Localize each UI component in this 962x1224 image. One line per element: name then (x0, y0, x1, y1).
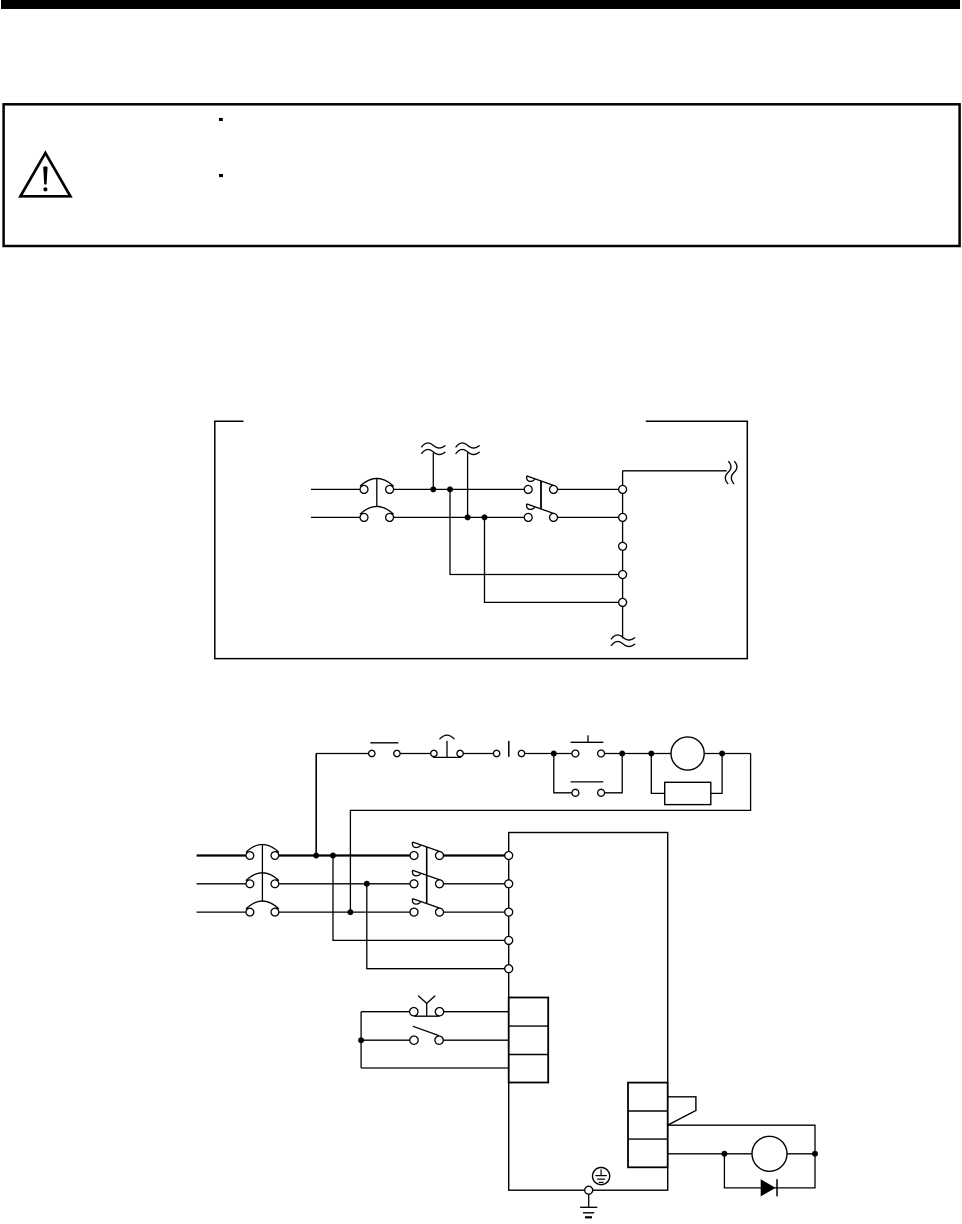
node dot on L1 (branch down) (447, 486, 453, 492)
contactor MC pole R (410, 842, 444, 860)
output wire upper (to motor right) (668, 1125, 815, 1154)
wire motor to right node (787, 1153, 815, 1155)
bullet 1 (219, 118, 223, 121)
power line T segments (197, 911, 505, 913)
node dot (aux branch right) (619, 751, 625, 757)
aux contact bar (571, 781, 604, 783)
cable squiggle 1 (vertical with break) (421, 443, 445, 489)
control wire segment 2 (400, 753, 431, 755)
wire contactor to terminal 1 (558, 488, 619, 490)
node dot motor left (721, 1151, 727, 1157)
motor M (752, 1136, 787, 1171)
node dot on loop (358, 1037, 364, 1043)
MCCB pole S (246, 873, 279, 888)
node dot L1 to STF (330, 853, 336, 859)
enclosure frame (diagram 1) (215, 421, 748, 658)
wire L1 to contactor (394, 488, 525, 490)
bullet 2 (219, 174, 223, 177)
wire branch to terminal 4 (450, 489, 619, 574)
contactor MC pole T (410, 899, 444, 917)
contactor MC link (426, 847, 428, 904)
circuit breaker (2-pole) pole 2 (360, 506, 394, 521)
inverter terminal S (505, 880, 513, 888)
control wire segment 1 (316, 753, 368, 755)
control terminal block (509, 998, 549, 1083)
cable squiggle right (vertical waves) (725, 461, 737, 484)
inverter terminal 5 (505, 965, 513, 973)
output wire lower (to motor) (668, 1153, 752, 1155)
header bar (1, 0, 960, 9)
wire to inverter terminal 4 (333, 856, 505, 941)
inverter terminal 4 (505, 936, 513, 944)
node dot on L2 (branch down) (482, 514, 488, 520)
terminal bus vertical (622, 471, 624, 639)
stop contact (NC) circles (369, 750, 401, 756)
ground symbol (580, 1194, 597, 1217)
control wire segment 3 (463, 753, 493, 755)
wire contactor to terminal 2 (558, 516, 619, 518)
surge absorber box (665, 782, 711, 804)
control wire segment 5 (604, 753, 671, 755)
node dot on L2 (branch up) (465, 514, 471, 520)
surge absorber wires (651, 754, 722, 794)
terminal 3 (619, 542, 627, 550)
node dot motor right (812, 1151, 818, 1157)
start pushbutton NO circles (493, 750, 524, 756)
MCCB pole R (246, 845, 279, 860)
aux self-hold branch wires (554, 754, 622, 793)
cable squiggle 2 (vertical with break) (456, 443, 480, 517)
control wire segment 6 (704, 753, 750, 755)
wire L2 input (311, 516, 360, 518)
node dot on L1 (branch up) (430, 486, 436, 492)
wire top to cable break (623, 470, 727, 472)
inverter terminal R (505, 852, 513, 860)
cable flag marker (668, 1097, 696, 1125)
caution box frame (4, 104, 960, 246)
freewheel diode branch wires (724, 1154, 815, 1188)
control wire segment 4 (525, 753, 573, 755)
circuit breaker (2-pole) pole 1 (360, 478, 394, 493)
switch loop bottom wire (361, 1067, 509, 1069)
stop contact bar (370, 742, 398, 744)
contactor mechanical link (diagram 1) (540, 481, 542, 509)
selector switch wires (361, 1039, 509, 1041)
node dot on T (return) (347, 909, 353, 915)
contactor coil MC (671, 737, 704, 770)
cable squiggle bottom (611, 635, 635, 647)
PE symbol (circled earth) (593, 1168, 610, 1185)
wire L1 input (311, 488, 360, 490)
wire branch to terminal 5 (485, 517, 619, 602)
warning triangle (20, 153, 70, 196)
aux contact circles (572, 789, 605, 796)
power line S segments (197, 883, 505, 885)
node dot on S (364, 881, 370, 887)
wire L2 to contactor (394, 516, 525, 518)
node dot (surge branch left) (648, 751, 654, 757)
pushbutton NC bar below + stem + dome (433, 735, 461, 757)
control return wire (350, 754, 750, 913)
terminal 5 (619, 598, 627, 606)
OL relay bar with tick (571, 735, 604, 742)
contactor MC pole S (410, 870, 444, 888)
node dot (aux branch left) (551, 751, 557, 757)
inverter terminal T (505, 908, 513, 916)
ground terminal circle (585, 1186, 593, 1194)
power line R (bold) segments (197, 854, 505, 856)
output terminal block (628, 1083, 668, 1168)
contactor pole 2 (diagram 1) (524, 504, 557, 522)
start pushbutton plunger (508, 741, 510, 757)
wire to inverter terminal 5 (367, 884, 505, 969)
MCCB pole T (246, 901, 279, 916)
terminal 1 (619, 485, 627, 493)
control feed wire (from L1 up) (315, 754, 317, 856)
terminal 2 (619, 513, 627, 521)
OL relay contact circles (572, 750, 605, 757)
MCCB mechanical link (261, 845, 263, 902)
interlock switch (NC with Y) (410, 996, 444, 1017)
node dot L1 control feed (313, 853, 319, 859)
node dot (surge branch right) (719, 751, 725, 757)
terminal 4 (619, 571, 627, 579)
interlock switch wires (361, 1011, 509, 1013)
diode D (761, 1179, 777, 1196)
inverter box (509, 833, 668, 1191)
pushbutton NC (dome) circles (431, 750, 464, 756)
selector switch (NO) (410, 1026, 444, 1044)
breaker mechanical link (376, 478, 378, 506)
contactor pole 1 (diagram 1) (524, 476, 557, 494)
switch loop left vertical (360, 1012, 362, 1068)
